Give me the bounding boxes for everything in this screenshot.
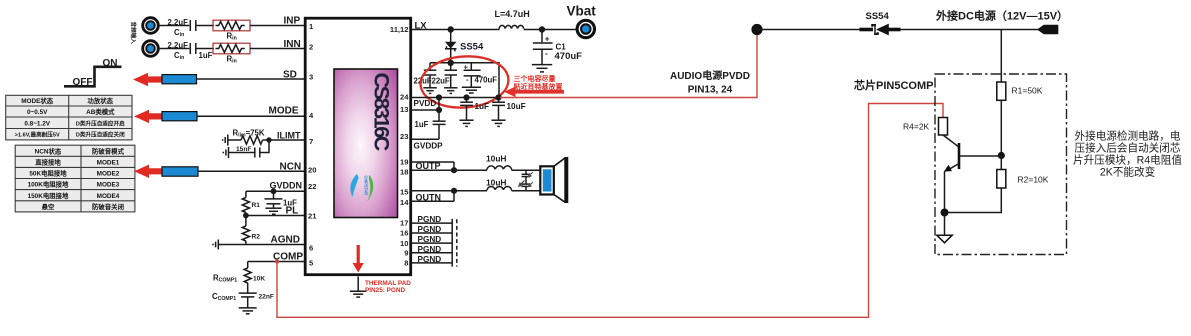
svg-text:21: 21 [308, 211, 317, 220]
node PVDD junction c [495, 94, 501, 100]
svg-text:AB类模式: AB类模式 [86, 107, 115, 116]
svg-text:15nF: 15nF [236, 146, 251, 153]
label THERMAL PAD PIN25: PGND [365, 280, 411, 294]
inductor 10uH (OUTP) [486, 154, 512, 172]
ground at 22uF (second) [444, 75, 458, 93]
node PVDD junction b [463, 94, 469, 100]
svg-text:MODE1: MODE1 [97, 159, 120, 166]
jumper block NCN (blue) [162, 167, 198, 176]
ground (sideways) at Rlim [223, 135, 228, 146]
node DC supply junction [751, 24, 762, 35]
wire Rin to pin1 INP [250, 16, 305, 27]
wire DC node to diode [757, 29, 873, 31]
wire Cin to Rin (INP) [196, 25, 214, 27]
capacitor 22uF (second) [432, 63, 458, 86]
jumper block MODE (blue) [162, 112, 197, 121]
ground at 1uF decoupling [459, 105, 473, 126]
svg-text:防破音关闭: 防破音关闭 [92, 202, 124, 211]
red arrow SD [133, 73, 162, 86]
wire OUTP pin18 stub [411, 161, 454, 171]
svg-text:2K不能改变: 2K不能改变 [1100, 166, 1156, 179]
svg-text:17: 17 [400, 218, 408, 227]
capacitor 1uF at GVDDN [265, 191, 298, 207]
wire MODE to pin4 [197, 106, 305, 117]
node collector junction [998, 152, 1005, 159]
ground bus PGND [452, 219, 457, 267]
svg-text:470uF: 470uF [475, 76, 498, 85]
wire LX rail [411, 20, 576, 31]
svg-text:MODE4: MODE4 [97, 193, 120, 200]
label audio input (vertical) [130, 22, 138, 45]
svg-text:SS54: SS54 [866, 11, 890, 22]
inductor 10uH (OUTN) [486, 177, 512, 191]
svg-text:150K电阻接地: 150K电阻接地 [28, 191, 69, 200]
svg-text:0~0.5V: 0~0.5V [27, 109, 48, 116]
ground (sideways) at 15nF [223, 147, 228, 158]
resistor Rin (INN) [213, 43, 250, 64]
svg-text:470uF: 470uF [555, 51, 583, 62]
capacitor Cin (INN) 2.2uF [168, 41, 213, 61]
svg-text:16: 16 [400, 228, 408, 237]
svg-text:OFF: OFF [73, 77, 93, 88]
wire diode to DC plug [900, 29, 1038, 31]
svg-text:PL: PL [286, 206, 299, 217]
svg-text:20: 20 [308, 165, 316, 174]
svg-text:SS54: SS54 [460, 42, 484, 53]
svg-text:直接接地: 直接接地 [35, 157, 61, 166]
svg-text:功放状态: 功放状态 [88, 96, 114, 105]
svg-text:压接入后会自动关闭芯: 压接入后会自动关闭芯 [1075, 142, 1181, 155]
transistor Q1 [943, 135, 1001, 213]
wire cap-group rail [430, 63, 499, 98]
resistor R2 10K [997, 156, 1049, 189]
diode D2 SS54 (horizontal) [860, 11, 901, 35]
node OUTN junction [451, 188, 457, 194]
wire OUTP to inductor [454, 169, 487, 171]
svg-text:MODE: MODE [269, 106, 299, 117]
pin number 22 [308, 182, 316, 191]
pin number 14 [400, 198, 409, 207]
svg-text:CHIPSTAR: CHIPSTAR [363, 176, 368, 196]
node LX-diode junction [448, 26, 454, 32]
svg-text:R4=2K: R4=2K [903, 122, 930, 132]
svg-text:100K电阻接地: 100K电阻接地 [28, 180, 69, 189]
svg-text:Vbat: Vbat [567, 4, 597, 19]
wire DC to R1 [1000, 30, 1002, 83]
SD on/off waveform [64, 58, 122, 88]
svg-text:15: 15 [400, 187, 409, 196]
capacitor EMI pair across outputs [522, 170, 531, 191]
svg-text:+: + [545, 35, 550, 44]
svg-text:外接电源检测电路，电: 外接电源检测电路，电 [1075, 130, 1181, 143]
svg-text:0.8~1.2V: 0.8~1.2V [24, 120, 50, 127]
wire COMP to pin5 [248, 252, 305, 263]
diode D1 SS54 (vertical) [445, 30, 484, 63]
pin number 2 [309, 42, 313, 51]
wire Rin to pin2 INN [250, 39, 305, 50]
wire AGND to pin6 [218, 235, 305, 246]
ground (open triangle) detection circuit [937, 235, 952, 243]
red arrow NCN [134, 165, 162, 178]
capacitor Cin (INP) 2.2uF [168, 18, 196, 38]
wire OUTP pin19 stub [411, 161, 454, 163]
ground at 470uF [462, 76, 481, 93]
wire PGND pin9 [411, 245, 452, 254]
svg-text:R2: R2 [252, 234, 261, 241]
svg-text:外接DC电源（12V—15V）: 外接DC电源（12V—15V） [935, 9, 1068, 23]
connector J2 (RCA INN) [143, 41, 159, 57]
svg-text:19: 19 [400, 157, 408, 166]
pin number 9 [404, 249, 408, 258]
svg-text:13: 13 [400, 105, 408, 114]
pin number 17 [400, 218, 408, 227]
pin number 13 [400, 105, 408, 114]
svg-text:R1: R1 [252, 202, 261, 209]
svg-text:贴近肖特基放置: 贴近肖特基放置 [513, 82, 563, 91]
wire OUTN pin15 stub [411, 191, 454, 203]
pin number 7 [309, 137, 313, 146]
svg-text:2.2uF: 2.2uF [168, 41, 189, 50]
svg-text:芯片PIN5COMP: 芯片PIN5COMP [854, 78, 933, 92]
inductor L 4.7uH [495, 9, 530, 30]
svg-text:3: 3 [309, 72, 313, 81]
op-amp U1 CS8316C chip body [305, 18, 411, 275]
wire PGND pin10 [411, 235, 452, 244]
jumper block SD (blue) [162, 75, 197, 84]
wire PGND pin16 [411, 225, 452, 234]
resistor Rlim 75K [228, 129, 269, 145]
logo chipstar swirl [350, 174, 373, 202]
ground thermal pad [350, 291, 367, 297]
svg-text:7: 7 [309, 137, 313, 146]
node OUTP junction [451, 167, 457, 173]
svg-text:-: - [545, 49, 548, 58]
wire OUTN to speaker [512, 190, 540, 192]
resistor R4 2K [903, 118, 948, 136]
thermal pad red arrow [353, 245, 364, 273]
wire GVDDN to pin22 [246, 181, 305, 192]
wire PGND pin17 [411, 215, 452, 224]
node GVDDN junction [271, 188, 277, 194]
resistor R1 50K [997, 82, 1043, 100]
svg-text:22uF: 22uF [432, 77, 450, 86]
svg-text:D类升压自适应开启: D类升压自适应开启 [76, 119, 125, 127]
wire OUTN pin14 stub [411, 200, 454, 202]
label DC source [935, 9, 1068, 23]
red callout arrow to caps [504, 87, 564, 98]
svg-text:PGND: PGND [418, 235, 442, 244]
svg-text:三个电容尽量: 三个电容尽量 [514, 74, 556, 83]
red note text caps placement [513, 74, 563, 91]
label AUDIO PVDD [670, 69, 750, 96]
svg-text:L=4.7uH: L=4.7uH [495, 9, 530, 19]
pin number 19 [400, 157, 408, 166]
svg-text:NCN: NCN [280, 162, 302, 173]
speaker SPK [540, 157, 568, 203]
red arrow MODE [134, 110, 162, 123]
wire R2 to emitter node [944, 188, 1001, 213]
wire NCN to pin20 [198, 162, 305, 173]
resistor RCOMP1 10K [213, 262, 265, 293]
pin number 20 [308, 165, 316, 174]
node PVDD junction a [436, 94, 442, 100]
svg-text:24: 24 [400, 92, 409, 101]
svg-text:INN: INN [284, 39, 301, 50]
svg-text:悬空: 悬空 [41, 202, 55, 211]
connector J1 (RCA INP) [143, 18, 159, 34]
svg-text:8: 8 [404, 259, 408, 268]
wire COMP red feedback to R4 [277, 104, 943, 318]
table MODE states [6, 95, 132, 140]
connector Vbat [567, 4, 597, 38]
ground (sideways) at AGND [213, 240, 218, 250]
pin number 18 [400, 167, 408, 176]
pin number 16 [400, 228, 408, 237]
ground at CCOMP1 [239, 297, 257, 314]
wire emitter to ground [944, 213, 946, 235]
pin number 3 [309, 72, 313, 81]
svg-text:SD: SD [283, 70, 297, 81]
svg-text:R2=10K: R2=10K [1018, 175, 1049, 185]
svg-text:PGND: PGND [418, 215, 442, 224]
wire OUTN to inductor [454, 190, 487, 192]
capacitor 15nF [229, 140, 270, 158]
pin number 23 [400, 132, 408, 141]
svg-text:Rlim=75K: Rlim=75K [233, 129, 265, 139]
capacitor 10uF (PVDD decoupling) [492, 98, 525, 112]
pin number 11,12 [390, 25, 409, 34]
node pin13 junction [436, 107, 442, 113]
svg-text:10uH: 10uH [486, 177, 506, 187]
wire R1 to collector node [1000, 100, 1002, 155]
svg-text:CS8316C: CS8316C [370, 73, 394, 151]
node ILIMT [266, 137, 271, 142]
arrow marks optional caps [519, 172, 533, 187]
svg-text:PVDD: PVDD [414, 99, 437, 108]
svg-text:NCN状态: NCN状态 [35, 146, 62, 155]
label chip PIN5 COMP [854, 78, 933, 92]
svg-text:2: 2 [309, 42, 313, 51]
node emitter junction [941, 209, 949, 217]
pin number 24 [400, 92, 409, 101]
capacitor CCOMP1 22nF [212, 292, 274, 302]
svg-text:2.2uF: 2.2uF [168, 18, 189, 27]
node PL junction [243, 213, 249, 219]
svg-text:PIN13, 24: PIN13, 24 [688, 85, 733, 96]
svg-text:22: 22 [308, 182, 316, 191]
svg-text:ILIMT: ILIMT [277, 131, 301, 141]
svg-text:1uF: 1uF [199, 51, 213, 60]
svg-text:MODE2: MODE2 [97, 171, 120, 178]
wire OUTN join [453, 191, 455, 202]
ground at 10uF decoupling [491, 105, 505, 126]
svg-text:THERMAL PAD: THERMAL PAD [365, 280, 411, 287]
pin number 21 [308, 211, 317, 220]
svg-text:10uH: 10uH [486, 154, 506, 164]
svg-text:10: 10 [400, 239, 408, 248]
svg-text:PIN25: PGND: PIN25: PGND [365, 287, 406, 294]
svg-text:PGND: PGND [418, 225, 442, 234]
node C1 junction [539, 26, 545, 32]
svg-text:OUTP: OUTP [416, 161, 441, 171]
capacitor C1 470uF [533, 30, 582, 63]
svg-text:10uF: 10uF [507, 102, 526, 111]
svg-text:1uF: 1uF [415, 120, 429, 129]
ground at C1 [532, 49, 552, 72]
capacitor 1uF (PVDD-GVDDP) [415, 110, 446, 139]
wire PL to pin21 [246, 206, 305, 217]
svg-text:22nF: 22nF [259, 294, 274, 301]
svg-text:18: 18 [400, 167, 408, 176]
svg-text:GVDDP: GVDDP [414, 141, 444, 150]
resistor R2 (PL-AGND) [242, 216, 260, 245]
svg-text:10K: 10K [253, 276, 265, 283]
svg-text:防破音模式: 防破音模式 [92, 146, 125, 155]
capacitor 22uF (first) [414, 63, 437, 86]
svg-text:1uF: 1uF [475, 102, 490, 111]
table NCN states [15, 145, 135, 212]
capacitor 1uF (PVDD decoupling) [460, 98, 489, 112]
svg-text:PGND: PGND [418, 255, 442, 264]
svg-text:23: 23 [400, 132, 408, 141]
wire SD to pin3 [197, 70, 306, 81]
svg-text:MODE状态: MODE状态 [21, 96, 54, 105]
wire INN jack to Cin [159, 48, 190, 50]
svg-text:AGND: AGND [271, 235, 300, 246]
wire thermal pad to ground [357, 277, 359, 292]
svg-text:R1=50K: R1=50K [1012, 86, 1043, 96]
wire pin24 to pin13 link [411, 98, 439, 111]
svg-text:INP: INP [284, 16, 301, 27]
svg-text:6: 6 [309, 243, 313, 252]
wire OUTP to speaker [512, 169, 540, 171]
svg-text:AUDIO电源PVDD: AUDIO电源PVDD [670, 69, 750, 82]
svg-text:MODE3: MODE3 [97, 182, 120, 189]
resistor Rin (INP) [213, 20, 250, 41]
wire PGND pin8 [411, 255, 452, 264]
pin number 8 [404, 259, 408, 268]
ground at GVDDN cap [266, 204, 282, 214]
svg-text:9: 9 [404, 249, 408, 258]
svg-text:14: 14 [400, 198, 409, 207]
svg-text:D类升压自适应关闭: D类升压自适应关闭 [76, 131, 125, 139]
wire Cin to Rin (INN) [196, 48, 214, 50]
pin number 15 [400, 187, 409, 196]
svg-text:音频输入: 音频输入 [130, 22, 138, 45]
svg-text:50K电阻接地: 50K电阻接地 [29, 169, 67, 178]
wire ILIMT to pin7 [269, 131, 305, 141]
pin number 1 [309, 22, 314, 31]
connector DC plug [1037, 25, 1058, 34]
resistor R1 (GVDDN-PL) [242, 191, 260, 215]
wire OUTP join [453, 162, 455, 170]
svg-text:>1.6V,最高耐压5V: >1.6V,最高耐压5V [15, 131, 60, 139]
svg-text:PGND: PGND [418, 245, 442, 254]
capacitor 470uF (boost output) [464, 63, 498, 85]
red ellipse highlight around caps [419, 53, 510, 110]
node diode-capgroup junction [448, 60, 454, 66]
note text detection circuit [1073, 130, 1182, 179]
pin number 4 [309, 111, 314, 120]
wire INP jack to Cin [159, 25, 190, 27]
wire red PVDD to DC node [500, 31, 757, 98]
svg-text:LX: LX [415, 20, 428, 31]
pin number 6 [309, 243, 313, 252]
svg-text:片升压模块，R4电阻值: 片升压模块，R4电阻值 [1073, 154, 1182, 167]
wire GVDDP pin23 [411, 139, 443, 150]
pin number 5 [309, 258, 314, 267]
node COMP red junction [275, 259, 279, 263]
svg-text:11,12: 11,12 [390, 25, 409, 34]
ground at 22uF (first) [423, 75, 437, 93]
wire PVDD rail [411, 98, 499, 109]
svg-text:ON: ON [103, 58, 118, 69]
detection circuit dash-dot box [935, 74, 1067, 255]
pin number 10 [400, 239, 408, 248]
